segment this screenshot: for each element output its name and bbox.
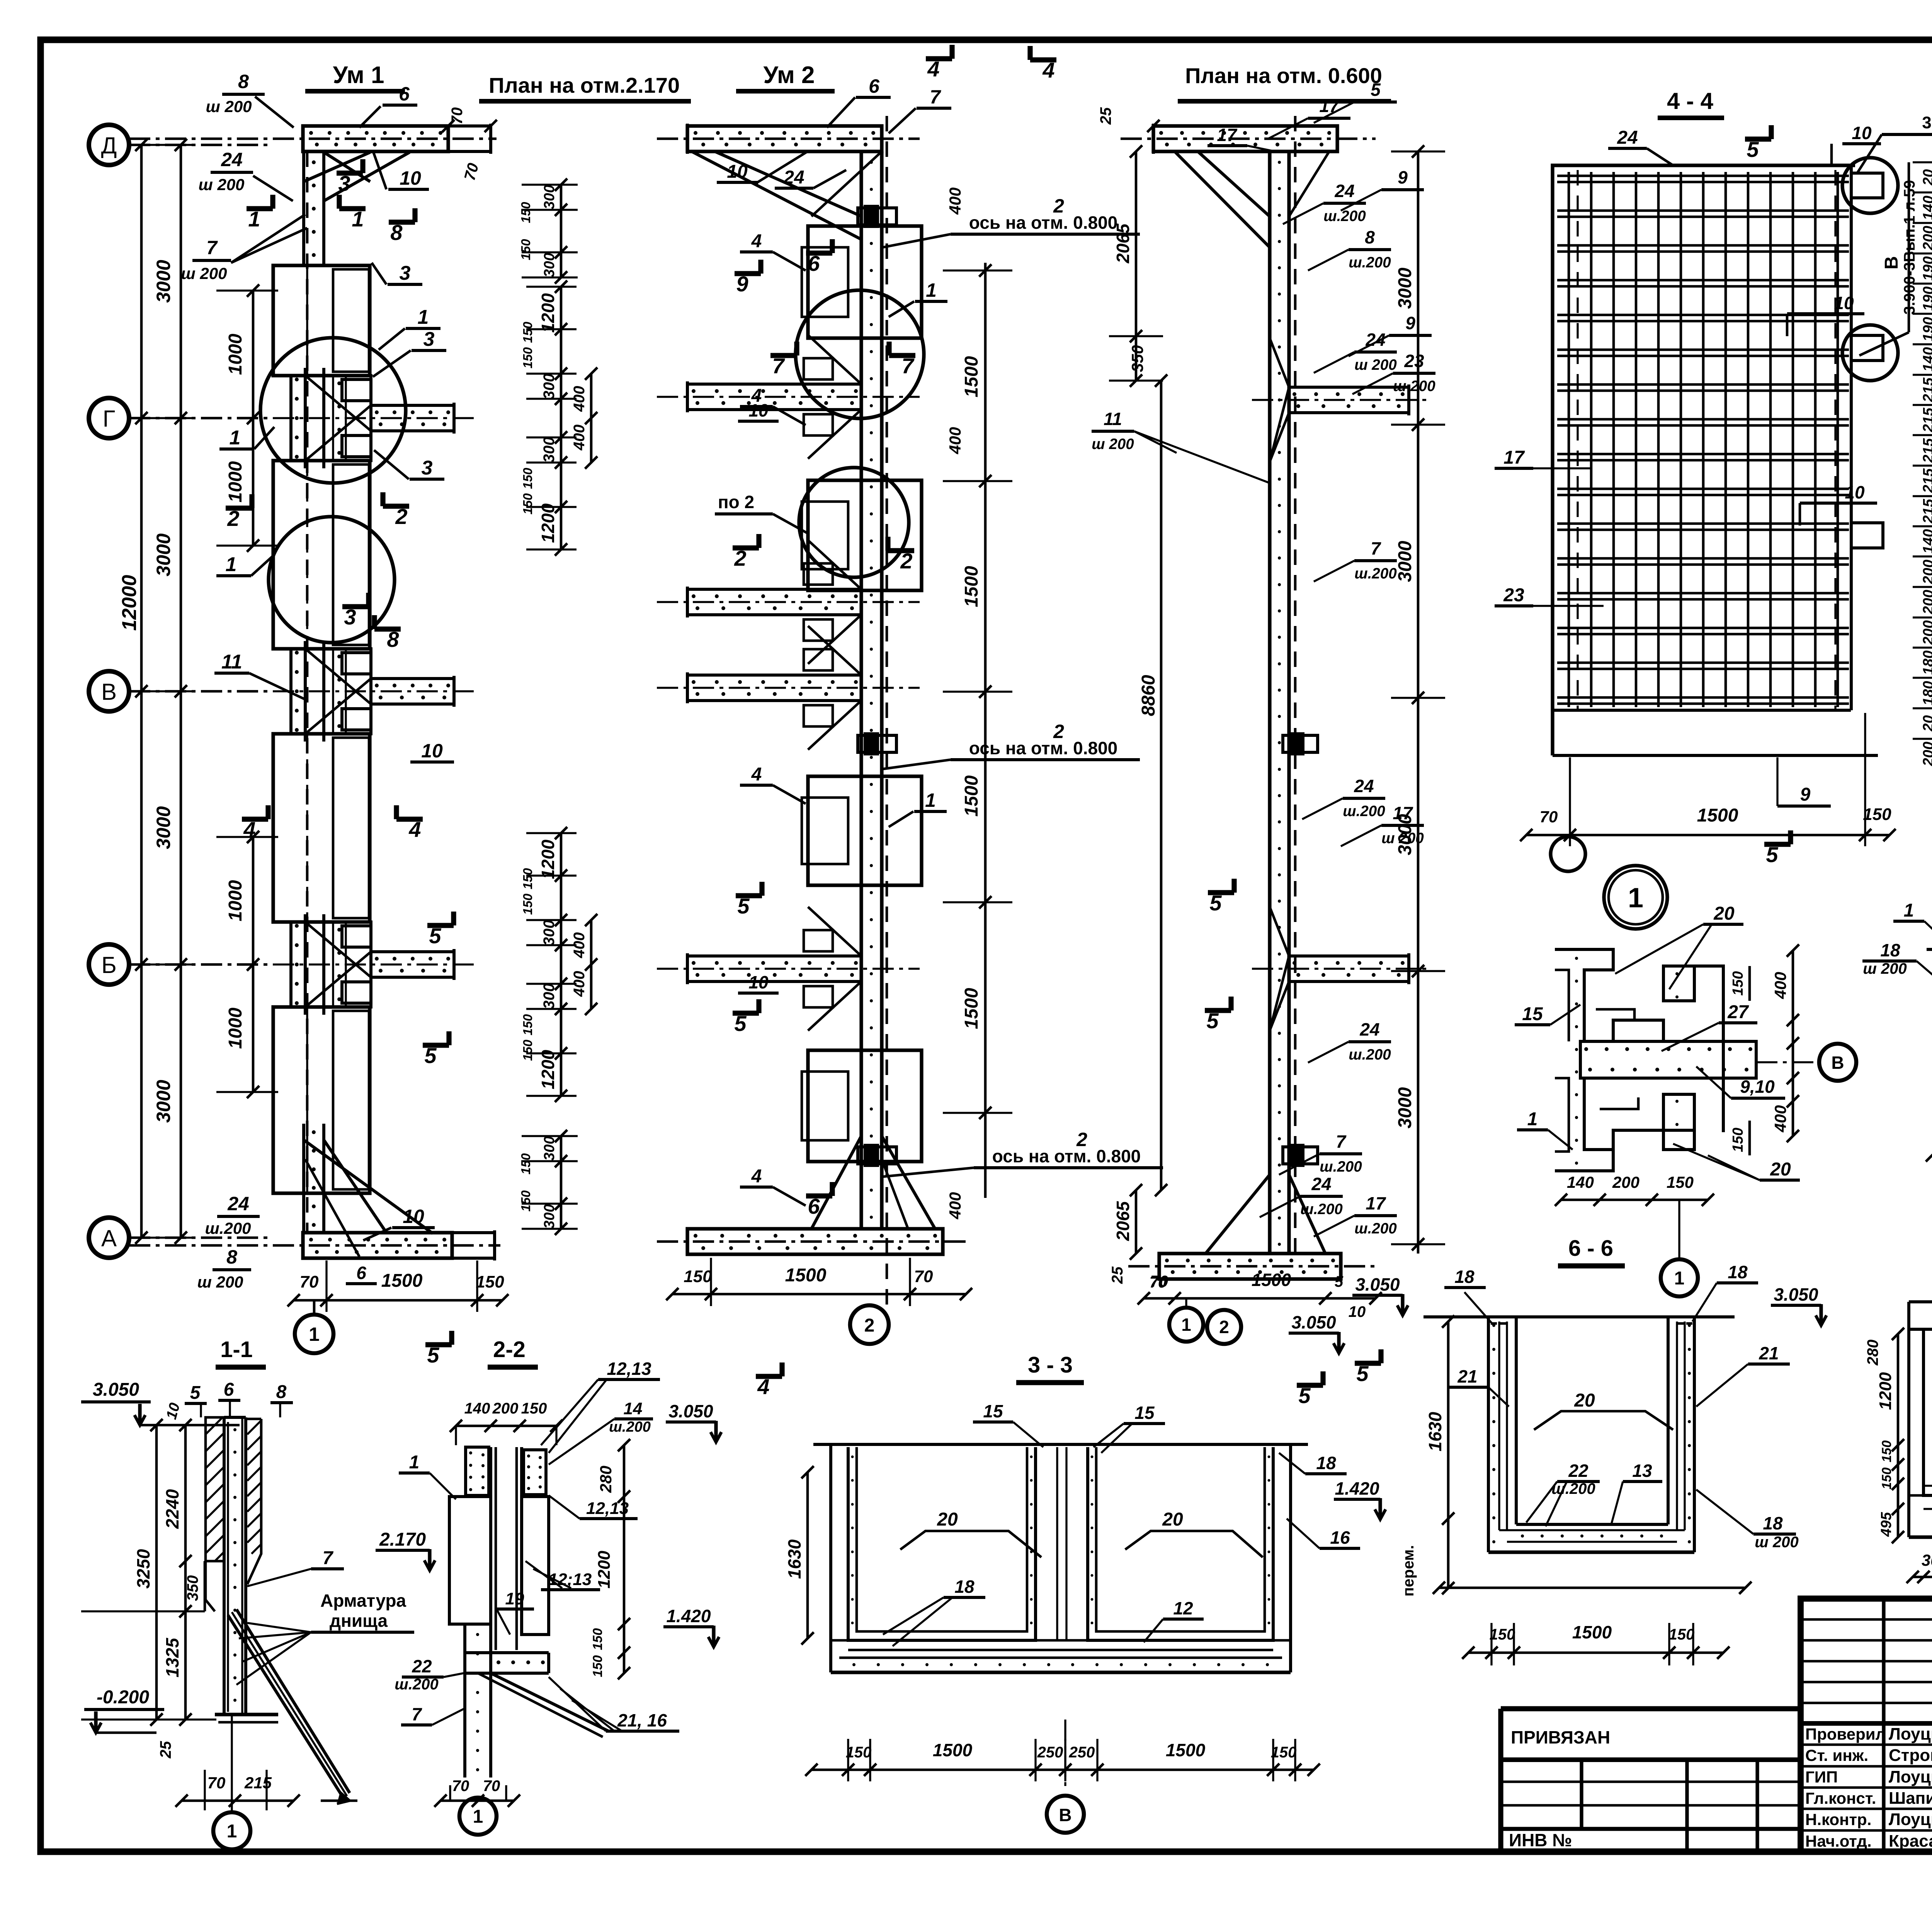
svg-text:3: 3 bbox=[423, 328, 435, 350]
svg-text:9: 9 bbox=[736, 272, 748, 296]
svg-text:23: 23 bbox=[1503, 585, 1524, 606]
svg-text:25: 25 bbox=[157, 1741, 174, 1759]
svg-text:24: 24 bbox=[227, 1193, 249, 1214]
svg-text:280: 280 bbox=[597, 1466, 615, 1493]
svg-text:ш.200: ш.200 bbox=[1300, 1201, 1343, 1218]
svg-text:1.420: 1.420 bbox=[666, 1606, 711, 1626]
svg-text:14: 14 bbox=[624, 1399, 643, 1418]
svg-text:12,13: 12,13 bbox=[607, 1359, 651, 1379]
svg-text:18: 18 bbox=[1880, 940, 1900, 960]
svg-text:8: 8 bbox=[1365, 227, 1375, 247]
svg-text:5: 5 bbox=[1747, 137, 1759, 162]
svg-text:1630: 1630 bbox=[784, 1539, 804, 1579]
svg-text:Б: Б bbox=[101, 952, 116, 978]
svg-text:10: 10 bbox=[1852, 123, 1872, 143]
svg-text:19: 19 bbox=[505, 1589, 524, 1608]
svg-text:1200: 1200 bbox=[1876, 1372, 1895, 1410]
svg-text:План на отм.2.170: План на отм.2.170 bbox=[489, 73, 680, 97]
svg-text:8: 8 bbox=[387, 627, 399, 651]
svg-text:3000: 3000 bbox=[153, 260, 174, 303]
svg-text:10: 10 bbox=[1834, 293, 1854, 313]
svg-text:300: 300 bbox=[541, 1204, 558, 1228]
svg-text:215: 215 bbox=[1920, 468, 1932, 493]
svg-text:ш.200: ш.200 bbox=[1354, 565, 1397, 582]
svg-text:1: 1 bbox=[226, 553, 237, 576]
svg-text:2: 2 bbox=[227, 506, 239, 531]
svg-text:8860: 8860 bbox=[1138, 675, 1159, 716]
svg-text:150: 150 bbox=[590, 1628, 605, 1650]
svg-text:В: В bbox=[1831, 1053, 1844, 1073]
svg-text:ось на отм. 0.800: ось на отм. 0.800 bbox=[969, 738, 1117, 758]
svg-text:13: 13 bbox=[1632, 1461, 1652, 1481]
svg-text:7: 7 bbox=[412, 1704, 422, 1724]
svg-text:4: 4 bbox=[757, 1374, 769, 1399]
svg-text:22: 22 bbox=[1568, 1461, 1588, 1481]
svg-text:300: 300 bbox=[541, 983, 558, 1009]
svg-text:перем.: перем. bbox=[1400, 1545, 1417, 1596]
svg-text:215: 215 bbox=[1920, 407, 1932, 432]
svg-text:3.050: 3.050 bbox=[93, 1379, 139, 1400]
svg-text:16: 16 bbox=[1330, 1527, 1350, 1548]
svg-text:5: 5 bbox=[1371, 80, 1381, 100]
svg-text:400: 400 bbox=[571, 386, 588, 412]
svg-text:5: 5 bbox=[734, 1011, 747, 1036]
svg-text:24: 24 bbox=[1354, 776, 1374, 796]
svg-text:4: 4 bbox=[927, 57, 939, 81]
svg-text:5: 5 bbox=[1298, 1383, 1311, 1408]
svg-text:5: 5 bbox=[1209, 891, 1222, 915]
svg-text:В: В bbox=[101, 679, 117, 705]
svg-text:ГИП: ГИП bbox=[1805, 1768, 1838, 1786]
svg-text:400: 400 bbox=[571, 425, 588, 451]
svg-text:1200: 1200 bbox=[595, 1551, 614, 1589]
svg-text:ш.200: ш.200 bbox=[609, 1419, 651, 1435]
svg-text:1500: 1500 bbox=[381, 1271, 423, 1291]
svg-text:140: 140 bbox=[1920, 196, 1932, 220]
svg-text:1500: 1500 bbox=[1166, 1740, 1206, 1760]
svg-text:5: 5 bbox=[424, 1043, 437, 1068]
svg-text:150: 150 bbox=[590, 1655, 605, 1677]
svg-text:ш 200: ш 200 bbox=[197, 1273, 243, 1291]
svg-text:Д: Д bbox=[101, 133, 117, 158]
svg-text:150: 150 bbox=[519, 1153, 533, 1175]
svg-text:1000: 1000 bbox=[225, 333, 246, 375]
svg-text:150: 150 bbox=[520, 1014, 535, 1036]
svg-text:днища: днища bbox=[330, 1611, 388, 1631]
svg-text:1500: 1500 bbox=[1252, 1270, 1291, 1290]
svg-text:150: 150 bbox=[519, 239, 533, 260]
svg-text:11: 11 bbox=[221, 651, 242, 673]
svg-text:150: 150 bbox=[1879, 1441, 1894, 1463]
svg-text:ш 200: ш 200 bbox=[1381, 830, 1424, 847]
svg-text:140: 140 bbox=[1567, 1173, 1594, 1191]
svg-text:70: 70 bbox=[452, 1778, 469, 1795]
svg-text:1: 1 bbox=[925, 789, 936, 811]
svg-text:Лоуцкер: Лоуцкер bbox=[1889, 1767, 1932, 1786]
svg-text:200: 200 bbox=[1612, 1173, 1639, 1191]
svg-text:6: 6 bbox=[808, 251, 820, 276]
svg-text:1200: 1200 bbox=[538, 293, 558, 333]
svg-text:Лоуцкер: Лоуцкер bbox=[1889, 1725, 1932, 1744]
svg-text:1630: 1630 bbox=[1425, 1412, 1445, 1451]
svg-text:215: 215 bbox=[1920, 498, 1932, 524]
svg-text:22: 22 bbox=[412, 1656, 432, 1676]
svg-text:3.050: 3.050 bbox=[1291, 1312, 1336, 1332]
svg-text:1-1: 1-1 bbox=[220, 1337, 253, 1362]
svg-text:150: 150 bbox=[1879, 1468, 1894, 1490]
svg-text:3.050: 3.050 bbox=[1774, 1284, 1818, 1305]
svg-text:ш.200: ш.200 bbox=[1349, 1046, 1391, 1063]
svg-text:ш.200: ш.200 bbox=[1343, 803, 1385, 820]
svg-text:70: 70 bbox=[449, 107, 466, 125]
svg-text:7: 7 bbox=[772, 354, 785, 378]
svg-text:1000: 1000 bbox=[225, 461, 246, 502]
svg-text:15: 15 bbox=[983, 1401, 1003, 1421]
svg-text:1: 1 bbox=[248, 207, 260, 231]
svg-text:1: 1 bbox=[473, 1806, 483, 1827]
svg-text:15: 15 bbox=[1522, 1004, 1543, 1024]
svg-text:150: 150 bbox=[520, 893, 535, 915]
svg-text:9,10: 9,10 bbox=[1740, 1077, 1775, 1097]
svg-text:1: 1 bbox=[409, 1452, 420, 1473]
svg-text:20: 20 bbox=[1770, 1159, 1791, 1180]
svg-text:ПРИВЯЗАН: ПРИВЯЗАН bbox=[1511, 1727, 1610, 1747]
svg-text:180: 180 bbox=[1920, 681, 1932, 705]
svg-text:17: 17 bbox=[1393, 803, 1413, 823]
svg-text:250: 250 bbox=[1037, 1744, 1063, 1761]
svg-text:150: 150 bbox=[1667, 1173, 1694, 1191]
svg-text:7: 7 bbox=[1336, 1131, 1347, 1152]
svg-text:18: 18 bbox=[1763, 1513, 1783, 1533]
svg-text:150: 150 bbox=[1271, 1744, 1297, 1761]
svg-text:1500: 1500 bbox=[961, 356, 982, 397]
svg-text:1500: 1500 bbox=[961, 566, 982, 607]
svg-text:18: 18 bbox=[1728, 1262, 1748, 1282]
svg-text:10: 10 bbox=[400, 167, 421, 189]
svg-text:2: 2 bbox=[395, 504, 407, 529]
svg-text:21: 21 bbox=[1457, 1366, 1477, 1386]
svg-text:3000: 3000 bbox=[153, 1080, 174, 1123]
svg-text:70: 70 bbox=[207, 1774, 226, 1792]
svg-text:ш 200: ш 200 bbox=[1092, 436, 1134, 452]
svg-text:3: 3 bbox=[344, 605, 356, 629]
svg-text:190: 190 bbox=[1920, 286, 1932, 311]
svg-text:200: 200 bbox=[1920, 620, 1932, 645]
svg-text:1500: 1500 bbox=[961, 775, 982, 816]
svg-text:350: 350 bbox=[184, 1575, 201, 1601]
svg-text:140: 140 bbox=[464, 1400, 490, 1417]
svg-text:ш.200: ш.200 bbox=[1323, 208, 1366, 225]
svg-text:6 - 6: 6 - 6 bbox=[1568, 1236, 1613, 1261]
svg-text:24: 24 bbox=[1334, 181, 1354, 201]
svg-text:Ум 1: Ум 1 bbox=[333, 62, 384, 88]
svg-text:7: 7 bbox=[901, 354, 915, 378]
svg-text:Красавин: Красавин bbox=[1889, 1832, 1932, 1851]
svg-text:150: 150 bbox=[476, 1272, 504, 1291]
svg-text:1: 1 bbox=[418, 306, 429, 328]
svg-text:24: 24 bbox=[221, 149, 243, 170]
svg-text:150: 150 bbox=[846, 1744, 872, 1761]
svg-text:18: 18 bbox=[1454, 1267, 1475, 1287]
svg-text:6: 6 bbox=[808, 1194, 820, 1218]
svg-text:24: 24 bbox=[1617, 128, 1638, 148]
svg-text:6: 6 bbox=[356, 1263, 366, 1283]
svg-text:150: 150 bbox=[519, 202, 533, 223]
svg-text:3.050: 3.050 bbox=[1355, 1274, 1400, 1294]
svg-text:2-2: 2-2 bbox=[493, 1337, 526, 1362]
svg-text:200: 200 bbox=[1920, 226, 1932, 250]
svg-text:215: 215 bbox=[1920, 438, 1932, 463]
svg-text:Арматура: Арматура bbox=[320, 1590, 406, 1611]
svg-text:18: 18 bbox=[1316, 1453, 1336, 1473]
svg-text:12: 12 bbox=[1173, 1598, 1193, 1618]
svg-text:ш 200: ш 200 bbox=[198, 175, 244, 194]
svg-text:70: 70 bbox=[1150, 1274, 1167, 1291]
svg-text:2240: 2240 bbox=[162, 1489, 182, 1529]
svg-text:300: 300 bbox=[541, 437, 558, 463]
svg-text:1: 1 bbox=[352, 207, 364, 231]
svg-text:24: 24 bbox=[783, 167, 804, 188]
svg-text:21: 21 bbox=[1759, 1343, 1779, 1363]
svg-text:150: 150 bbox=[520, 347, 535, 369]
svg-text:150: 150 bbox=[684, 1267, 712, 1286]
svg-text:150: 150 bbox=[519, 1190, 533, 1212]
svg-text:1: 1 bbox=[1181, 1315, 1191, 1335]
svg-text:3000: 3000 bbox=[153, 533, 174, 576]
svg-text:280: 280 bbox=[1864, 1340, 1881, 1366]
svg-text:1: 1 bbox=[309, 1323, 320, 1345]
svg-text:9: 9 bbox=[1800, 784, 1811, 805]
svg-text:7: 7 bbox=[206, 237, 218, 259]
svg-text:17: 17 bbox=[1217, 125, 1238, 145]
svg-text:3: 3 bbox=[422, 457, 433, 479]
svg-text:10: 10 bbox=[403, 1206, 424, 1227]
svg-text:Гл.конст.: Гл.конст. bbox=[1805, 1789, 1876, 1807]
svg-text:20: 20 bbox=[1920, 169, 1932, 186]
svg-text:А: А bbox=[101, 1225, 117, 1251]
svg-text:150: 150 bbox=[520, 868, 535, 890]
svg-text:400: 400 bbox=[946, 1192, 964, 1220]
svg-text:190: 190 bbox=[1920, 317, 1932, 341]
svg-text:Шапиро: Шапиро bbox=[1889, 1789, 1932, 1808]
svg-text:3.900-3 Вып.1 л.59: 3.900-3 Вып.1 л.59 bbox=[1922, 113, 1932, 132]
svg-text:4: 4 bbox=[751, 231, 762, 252]
svg-text:23: 23 bbox=[1404, 351, 1424, 371]
svg-text:1000: 1000 bbox=[225, 1007, 246, 1049]
svg-text:15: 15 bbox=[1134, 1403, 1155, 1423]
svg-text:Г: Г bbox=[103, 406, 116, 432]
svg-text:8: 8 bbox=[390, 220, 403, 245]
svg-text:по 2: по 2 bbox=[718, 492, 754, 512]
svg-text:8: 8 bbox=[226, 1246, 237, 1268]
svg-text:2: 2 bbox=[734, 546, 746, 570]
svg-text:70: 70 bbox=[483, 1778, 500, 1795]
svg-text:-0.200: -0.200 bbox=[97, 1687, 149, 1708]
svg-text:ш 200: ш 200 bbox=[206, 97, 252, 116]
svg-text:20: 20 bbox=[1162, 1509, 1183, 1530]
svg-text:ш 200: ш 200 bbox=[181, 264, 227, 282]
svg-text:5: 5 bbox=[1356, 1361, 1369, 1386]
svg-text:5: 5 bbox=[190, 1383, 201, 1403]
svg-text:4: 4 bbox=[408, 817, 421, 842]
svg-text:1500: 1500 bbox=[1697, 805, 1738, 826]
svg-text:Лоуцкер: Лоуцкер bbox=[1889, 1810, 1932, 1829]
svg-text:400: 400 bbox=[1771, 972, 1789, 999]
svg-text:250: 250 bbox=[1069, 1744, 1095, 1761]
svg-text:10: 10 bbox=[1349, 1303, 1366, 1320]
svg-text:7: 7 bbox=[1371, 538, 1381, 558]
svg-text:ш 200: ш 200 bbox=[1863, 960, 1906, 977]
svg-text:6: 6 bbox=[224, 1379, 234, 1400]
svg-text:3000: 3000 bbox=[1395, 541, 1415, 582]
svg-text:400: 400 bbox=[1771, 1105, 1789, 1133]
svg-text:20: 20 bbox=[1713, 903, 1735, 924]
svg-text:5: 5 bbox=[427, 1343, 439, 1367]
svg-text:140: 140 bbox=[1920, 529, 1932, 553]
svg-text:1: 1 bbox=[1628, 883, 1643, 913]
svg-text:17: 17 bbox=[1319, 96, 1340, 116]
svg-text:4 - 4: 4 - 4 bbox=[1667, 88, 1714, 114]
svg-text:1: 1 bbox=[1527, 1109, 1538, 1129]
svg-text:25: 25 bbox=[1109, 1266, 1126, 1284]
svg-text:3000: 3000 bbox=[1395, 267, 1415, 309]
svg-text:10: 10 bbox=[1845, 482, 1865, 502]
svg-text:215: 215 bbox=[244, 1774, 272, 1792]
svg-text:6: 6 bbox=[399, 83, 410, 105]
svg-text:ось на отм. 0.800: ось на отм. 0.800 bbox=[992, 1146, 1141, 1166]
svg-text:150: 150 bbox=[521, 1400, 547, 1417]
svg-text:150: 150 bbox=[1863, 805, 1891, 824]
svg-text:10: 10 bbox=[727, 162, 748, 182]
svg-text:1000: 1000 bbox=[225, 880, 246, 921]
svg-text:4: 4 bbox=[243, 817, 255, 842]
svg-text:Ум 2: Ум 2 bbox=[763, 62, 815, 88]
svg-text:4: 4 bbox=[1042, 58, 1054, 82]
svg-text:3000: 3000 bbox=[153, 806, 174, 849]
svg-text:ось на отм. 0.800: ось на отм. 0.800 bbox=[969, 213, 1117, 233]
svg-text:190: 190 bbox=[1920, 256, 1932, 281]
svg-text:1500: 1500 bbox=[933, 1740, 973, 1760]
svg-text:150: 150 bbox=[520, 493, 535, 515]
svg-text:В: В bbox=[1881, 256, 1902, 270]
svg-text:3: 3 bbox=[338, 171, 350, 196]
svg-text:1: 1 bbox=[227, 1821, 237, 1842]
svg-text:1200: 1200 bbox=[538, 503, 558, 543]
svg-text:20: 20 bbox=[1574, 1390, 1595, 1411]
svg-text:150: 150 bbox=[1669, 1626, 1695, 1643]
svg-text:8: 8 bbox=[238, 71, 249, 92]
svg-text:150: 150 bbox=[1730, 1128, 1746, 1152]
svg-text:200: 200 bbox=[1920, 742, 1932, 766]
svg-text:215: 215 bbox=[1920, 377, 1932, 402]
svg-text:ш.200: ш.200 bbox=[205, 1219, 251, 1237]
svg-text:150: 150 bbox=[520, 468, 535, 489]
svg-text:70: 70 bbox=[300, 1272, 319, 1291]
svg-text:150: 150 bbox=[1490, 1626, 1515, 1643]
svg-text:3250: 3250 bbox=[133, 1549, 153, 1589]
svg-text:150: 150 bbox=[520, 1039, 535, 1061]
svg-text:2065: 2065 bbox=[1113, 1201, 1133, 1241]
svg-text:1200: 1200 bbox=[538, 1050, 558, 1089]
svg-text:5: 5 bbox=[1206, 1009, 1219, 1033]
svg-text:300: 300 bbox=[541, 1136, 558, 1160]
svg-text:400: 400 bbox=[571, 932, 588, 959]
svg-text:300: 300 bbox=[1922, 1551, 1932, 1569]
svg-text:1: 1 bbox=[926, 279, 937, 301]
svg-text:10: 10 bbox=[748, 400, 769, 420]
svg-text:10: 10 bbox=[421, 740, 443, 762]
svg-text:3.050: 3.050 bbox=[668, 1401, 713, 1421]
svg-text:350: 350 bbox=[1128, 345, 1146, 372]
svg-text:7: 7 bbox=[930, 86, 941, 108]
svg-text:5: 5 bbox=[1335, 1273, 1344, 1290]
svg-text:200: 200 bbox=[1920, 590, 1932, 614]
svg-text:ш.200: ш.200 bbox=[1354, 1220, 1397, 1237]
svg-text:400: 400 bbox=[946, 427, 964, 454]
svg-text:4: 4 bbox=[751, 764, 762, 785]
svg-text:4: 4 bbox=[751, 1166, 762, 1187]
svg-text:18: 18 bbox=[954, 1577, 975, 1597]
svg-text:1: 1 bbox=[230, 427, 241, 449]
svg-text:20: 20 bbox=[937, 1509, 958, 1530]
svg-text:2.170: 2.170 bbox=[379, 1529, 426, 1550]
svg-text:Стронгин: Стронгин bbox=[1889, 1746, 1932, 1765]
svg-text:21, 16: 21, 16 bbox=[617, 1710, 667, 1730]
svg-text:ИНВ №: ИНВ № bbox=[1509, 1830, 1572, 1850]
svg-text:Ст. инж.: Ст. инж. bbox=[1805, 1746, 1868, 1764]
svg-text:9: 9 bbox=[1398, 167, 1408, 187]
svg-text:1200: 1200 bbox=[538, 839, 558, 879]
svg-text:495: 495 bbox=[1878, 1512, 1895, 1537]
svg-text:1500: 1500 bbox=[961, 988, 982, 1029]
svg-text:180: 180 bbox=[1920, 650, 1932, 675]
svg-text:1325: 1325 bbox=[162, 1637, 182, 1677]
svg-text:70: 70 bbox=[914, 1267, 933, 1286]
svg-text:2: 2 bbox=[1219, 1317, 1229, 1337]
svg-text:6: 6 bbox=[869, 75, 880, 97]
svg-text:24: 24 bbox=[1359, 1019, 1379, 1039]
svg-text:ш.200: ш.200 bbox=[1320, 1158, 1362, 1175]
svg-text:1: 1 bbox=[1904, 900, 1914, 921]
svg-text:5: 5 bbox=[737, 894, 750, 918]
svg-text:10: 10 bbox=[748, 972, 769, 992]
svg-text:В: В bbox=[1059, 1805, 1071, 1825]
svg-text:9: 9 bbox=[1405, 313, 1415, 333]
svg-text:2: 2 bbox=[864, 1315, 875, 1336]
svg-text:12,13: 12,13 bbox=[586, 1499, 629, 1518]
svg-text:70: 70 bbox=[1540, 808, 1558, 826]
svg-text:3000: 3000 bbox=[1395, 1087, 1415, 1128]
svg-text:3: 3 bbox=[400, 262, 411, 284]
svg-text:27: 27 bbox=[1727, 1002, 1749, 1022]
svg-text:8: 8 bbox=[276, 1382, 287, 1402]
svg-text:20: 20 bbox=[1920, 715, 1932, 732]
svg-text:2065: 2065 bbox=[1113, 223, 1133, 264]
svg-text:300: 300 bbox=[541, 253, 558, 277]
svg-text:ш 200: ш 200 bbox=[1354, 357, 1397, 373]
svg-text:5: 5 bbox=[429, 924, 441, 948]
svg-text:1: 1 bbox=[1674, 1268, 1685, 1289]
svg-text:24: 24 bbox=[1311, 1174, 1331, 1194]
svg-text:150: 150 bbox=[520, 321, 535, 343]
svg-text:5: 5 bbox=[1766, 842, 1778, 867]
svg-text:1.420: 1.420 bbox=[1335, 1478, 1379, 1499]
svg-text:7: 7 bbox=[323, 1548, 334, 1568]
svg-text:План на отм. 0.600: План на отм. 0.600 bbox=[1185, 63, 1382, 88]
svg-text:ш 200: ш 200 bbox=[1755, 1534, 1798, 1551]
svg-text:ш.200: ш.200 bbox=[1349, 254, 1391, 271]
svg-text:140: 140 bbox=[1920, 347, 1932, 371]
